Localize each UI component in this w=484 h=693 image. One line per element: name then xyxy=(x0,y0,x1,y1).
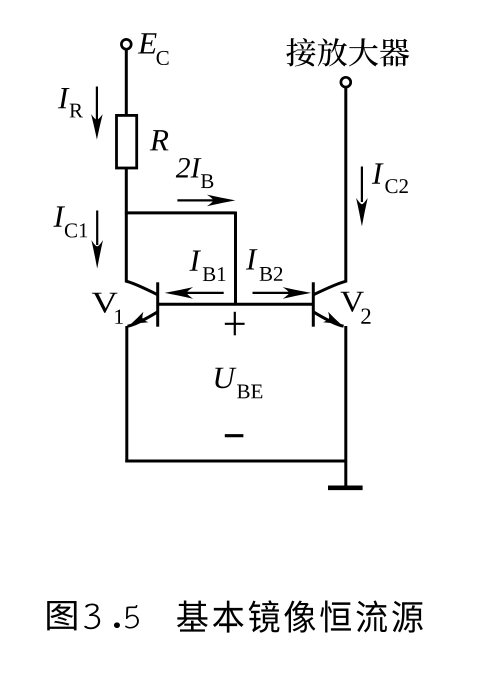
label UBE plus xyxy=(225,312,245,336)
label IC1 xyxy=(53,206,65,226)
current arrow IC2 xyxy=(361,167,363,203)
ground xyxy=(328,485,363,490)
label UBE minus xyxy=(225,434,244,437)
wire bottom xyxy=(125,460,345,463)
current arrow IB2 xyxy=(253,292,292,294)
current arrow IC1 xyxy=(96,211,98,246)
transistor V2 xyxy=(313,281,346,326)
terminal to amplifier xyxy=(341,77,351,87)
wire V2 emitter to ground xyxy=(344,326,347,487)
wire V1 emitter to bottom xyxy=(125,326,128,462)
wire V1 base xyxy=(158,303,236,306)
caption 图 3.5 基本镜像恒流源 xyxy=(47,601,76,630)
label UBE xyxy=(215,368,236,389)
current arrow IB1 xyxy=(185,292,224,294)
wire resistor R to V1 collector xyxy=(125,168,128,283)
label V1 xyxy=(92,293,118,313)
label IB1 xyxy=(189,250,201,270)
wire V2 base xyxy=(236,303,314,306)
label EC xyxy=(138,33,157,53)
label 2IB xyxy=(176,158,202,178)
terminal EC xyxy=(121,39,131,49)
label IR xyxy=(58,88,70,108)
label IB2 xyxy=(246,249,258,269)
current arrow IR xyxy=(96,87,98,121)
resistor R xyxy=(117,115,137,168)
wire junction vertical down to base node xyxy=(234,212,237,305)
wire junction horizontal to bases xyxy=(125,211,236,214)
label V2 xyxy=(341,292,364,312)
wire EC to resistor R xyxy=(125,50,128,114)
wire V2 collector to terminal xyxy=(344,87,347,282)
label R value xyxy=(150,130,169,150)
label IC2 xyxy=(372,163,384,183)
label 接放大器 (to amplifier) xyxy=(286,38,409,67)
transistor V1 xyxy=(126,281,157,326)
current arrow 2IB xyxy=(177,199,215,201)
